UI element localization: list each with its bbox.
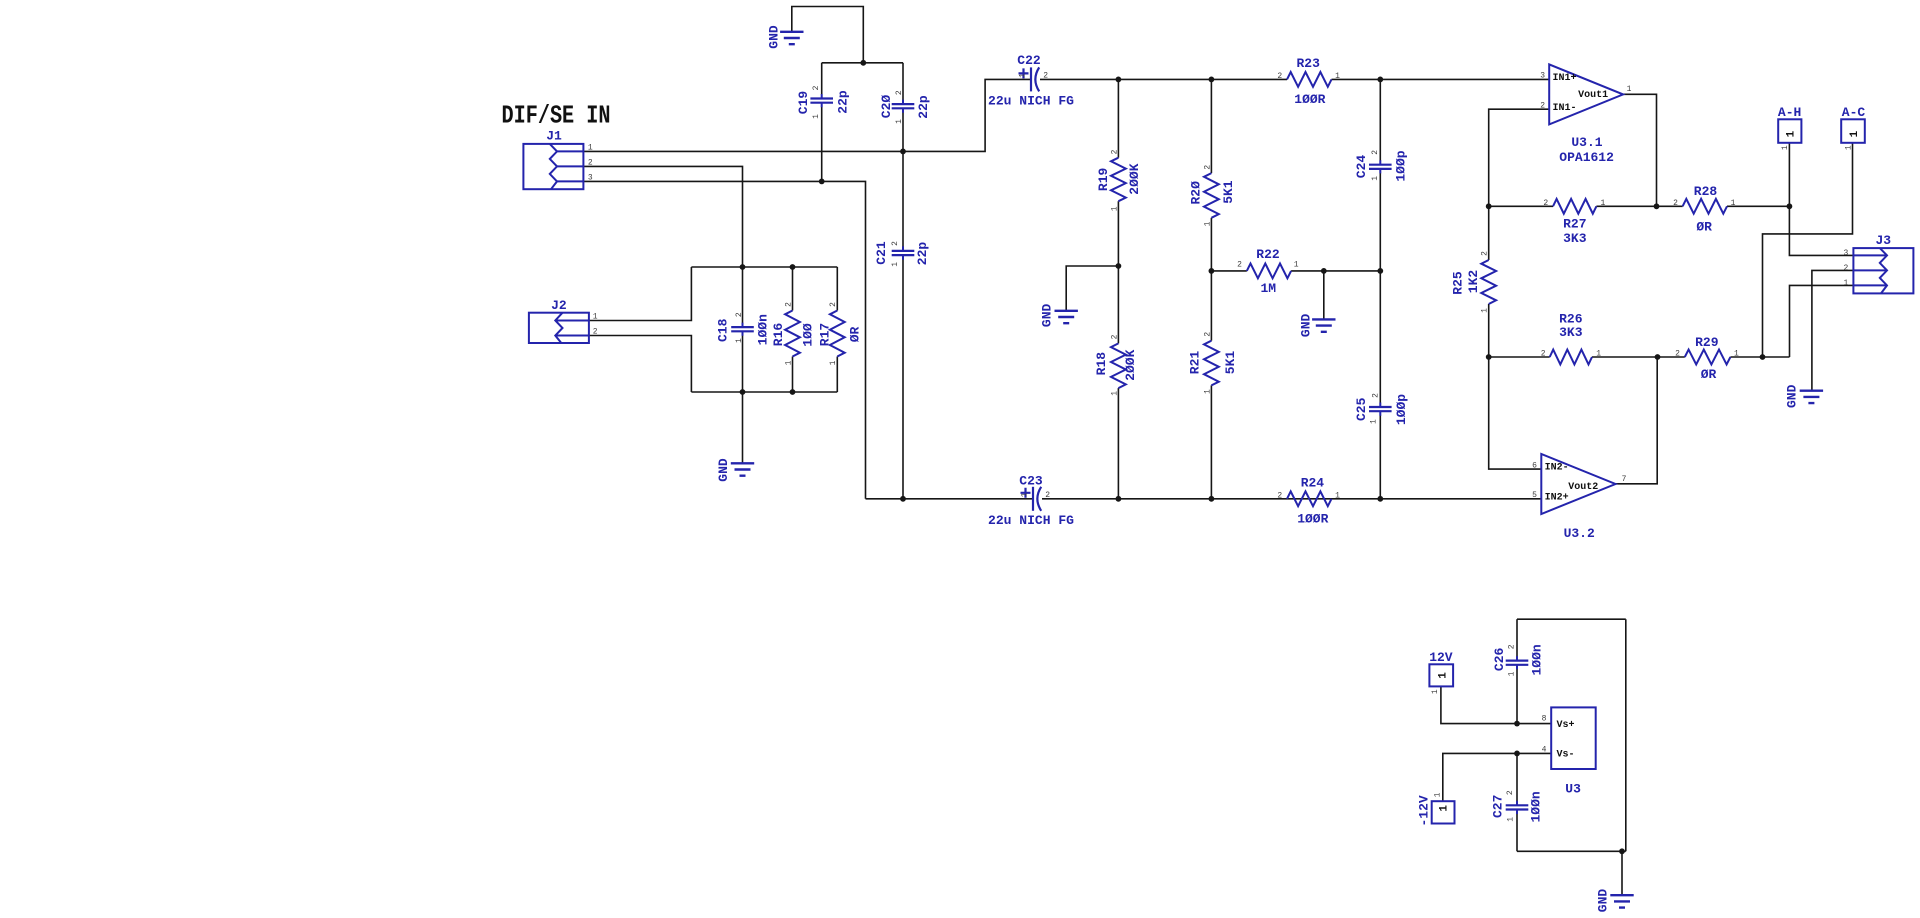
resistor R23	[1287, 72, 1332, 87]
wire R26 rail	[1489, 356, 1550, 358]
svg-text:1: 1	[1508, 671, 1517, 676]
svg-text:2: 2	[1541, 350, 1546, 359]
svg-text:2: 2	[735, 312, 744, 317]
resistor R19	[1111, 158, 1126, 202]
svg-text:1: 1	[1785, 130, 1797, 137]
svg-text:22u NICH FG: 22u NICH FG	[988, 94, 1074, 109]
svg-text:2: 2	[1110, 149, 1119, 154]
node R20-R21-R22 junction	[1209, 268, 1215, 274]
svg-text:2: 2	[1237, 260, 1242, 269]
wire C18 block bottom rail	[691, 391, 837, 393]
svg-text:12V: 12V	[1429, 650, 1453, 665]
resistor R21	[1204, 341, 1219, 386]
connector J2	[529, 313, 589, 343]
svg-text:GND: GND	[1040, 304, 1055, 328]
svg-text:2: 2	[1675, 350, 1680, 359]
node R21 bottom junction	[1209, 496, 1215, 502]
svg-text:J2: J2	[551, 298, 567, 313]
flag A-H	[1778, 119, 1801, 143]
ground GND6	[1610, 895, 1633, 907]
svg-text:Vout2: Vout2	[1568, 482, 1598, 493]
wire -12V to Vs-	[1443, 753, 1551, 801]
svg-text:A-C: A-C	[1842, 105, 1866, 120]
svg-text:1: 1	[891, 262, 900, 267]
svg-text:1: 1	[1437, 672, 1449, 679]
svg-text:1: 1	[1627, 85, 1632, 94]
wire J3 pin1 loop	[1790, 285, 1854, 357]
svg-text:2: 2	[784, 302, 793, 307]
svg-text:1ØØn: 1ØØn	[1529, 644, 1544, 675]
svg-text:1: 1	[1781, 145, 1790, 150]
wire U3.2 pin6 loop	[1489, 357, 1541, 469]
svg-text:1K2: 1K2	[1466, 270, 1481, 294]
svg-text:2: 2	[1203, 332, 1212, 337]
node power gnd junction	[1619, 848, 1625, 854]
wire A-H flag down to J3 pin3	[1789, 143, 1853, 256]
svg-text:R2Ø: R2Ø	[1188, 181, 1203, 205]
wire 12V to Vs+	[1441, 686, 1551, 723]
svg-text:5K1: 5K1	[1221, 180, 1236, 204]
svg-text:U3.1: U3.1	[1571, 135, 1602, 150]
svg-text:C19: C19	[796, 91, 811, 115]
svg-text:1: 1	[1203, 389, 1212, 394]
svg-text:Vs-: Vs-	[1557, 750, 1575, 761]
svg-text:2: 2	[1277, 491, 1282, 500]
wire top rail C19-C20	[822, 62, 903, 64]
svg-text:U3: U3	[1565, 782, 1581, 797]
wire bottom rail C23 to U3.2 pin5	[1042, 498, 1541, 500]
svg-text:GND: GND	[1596, 889, 1611, 913]
svg-text:1: 1	[1335, 72, 1340, 81]
wire GND2 stem	[742, 392, 744, 463]
capacitor C27	[1506, 805, 1529, 809]
ground GND5	[1800, 391, 1823, 403]
node R20 top junction	[1209, 77, 1215, 83]
svg-text:1: 1	[1110, 391, 1119, 396]
svg-text:5K1: 5K1	[1223, 351, 1238, 375]
wire power top rail	[1517, 618, 1626, 620]
resistor R25	[1481, 260, 1496, 304]
node R27 left junction	[1486, 203, 1492, 209]
node C20 junction on pin1 wire	[900, 149, 906, 155]
svg-text:1: 1	[1203, 221, 1212, 226]
wire C27 leads	[1516, 753, 1518, 801]
svg-text:DIF/SE IN: DIF/SE IN	[502, 102, 611, 131]
wire C26 leads	[1516, 619, 1518, 656]
node A-H junction	[1787, 203, 1793, 209]
node C24-C25 mid junction	[1377, 268, 1383, 274]
svg-text:GND: GND	[1298, 314, 1313, 338]
svg-text:Vs+: Vs+	[1557, 720, 1575, 731]
svg-text:2: 2	[1110, 334, 1119, 339]
node A-C junction on R29 net	[1760, 354, 1766, 360]
resistor R20	[1204, 173, 1219, 218]
svg-text:R16: R16	[771, 323, 786, 347]
svg-text:2: 2	[1372, 393, 1381, 398]
svg-text:GND: GND	[767, 25, 782, 49]
wire C21 leads	[902, 151, 904, 247]
node R26 left junction	[1486, 354, 1492, 360]
resistor R26	[1550, 350, 1592, 365]
svg-text:2: 2	[829, 302, 838, 307]
wire GND6 stem	[1621, 851, 1623, 895]
svg-text:1: 1	[588, 143, 593, 152]
svg-text:5: 5	[1532, 491, 1537, 500]
node R19 top junction	[1116, 77, 1122, 83]
svg-text:ØR: ØR	[847, 327, 862, 343]
svg-text:4: 4	[1542, 745, 1547, 754]
svg-text:1: 1	[829, 360, 838, 365]
ic U3 power box	[1551, 707, 1596, 769]
wire R27 rail	[1489, 205, 1553, 207]
capacitor C23 22u NICH FG	[1032, 487, 1034, 511]
svg-text:R23: R23	[1297, 56, 1321, 71]
svg-text:C22: C22	[1017, 53, 1041, 68]
svg-text:ØR: ØR	[1701, 367, 1717, 382]
wire J1 pin2 to C18 block	[583, 166, 742, 267]
wire U3.1 output down	[1623, 94, 1656, 206]
svg-text:22u NICH FG: 22u NICH FG	[988, 513, 1074, 528]
svg-text:2: 2	[1843, 264, 1848, 273]
op-amp U3.1 OPA1612	[1549, 64, 1623, 124]
capacitor C21	[892, 251, 915, 255]
node C27 top junction	[1514, 751, 1520, 757]
svg-text:2: 2	[1543, 199, 1548, 208]
svg-text:R27: R27	[1563, 217, 1586, 232]
wire R19 leads	[1117, 79, 1119, 157]
capacitor C25	[1369, 407, 1392, 411]
wire J1 pin1 net to C22	[583, 79, 1031, 151]
svg-text:ØR: ØR	[1696, 219, 1712, 234]
node top rail junction	[860, 60, 866, 66]
svg-text:1: 1	[1433, 792, 1442, 797]
svg-text:8: 8	[1542, 715, 1547, 724]
svg-text:1ØØR: 1ØØR	[1294, 92, 1325, 107]
connector J3	[1853, 248, 1913, 293]
resistor R27	[1553, 199, 1596, 214]
svg-text:1ØØp: 1ØØp	[1394, 394, 1409, 425]
svg-text:6: 6	[1532, 461, 1537, 470]
wire C24-C25 line	[1379, 79, 1381, 160]
svg-text:IN1+: IN1+	[1553, 73, 1577, 84]
svg-text:2: 2	[1673, 199, 1678, 208]
svg-text:2: 2	[1481, 251, 1490, 256]
supply 12V	[1429, 664, 1453, 686]
svg-text:1: 1	[593, 312, 598, 321]
svg-text:2: 2	[593, 327, 598, 336]
resistor R24	[1287, 491, 1332, 506]
wire R29 leads	[1658, 356, 1685, 358]
wire C19 leads	[821, 63, 823, 95]
svg-text:C25: C25	[1354, 397, 1369, 421]
node C18 top junction	[740, 264, 746, 270]
resistor R22	[1247, 264, 1291, 279]
svg-text:R22: R22	[1256, 247, 1280, 262]
wire C18 leads	[742, 267, 744, 323]
svg-text:J3: J3	[1876, 233, 1892, 248]
svg-text:1ØØ: 1ØØ	[801, 323, 816, 347]
capacitor C18	[731, 327, 754, 331]
svg-text:1: 1	[1431, 689, 1440, 694]
svg-text:1: 1	[1506, 817, 1515, 822]
svg-text:R25: R25	[1451, 271, 1466, 295]
svg-text:C21: C21	[874, 241, 889, 265]
op-amp U3.2	[1541, 454, 1615, 514]
wire GND1 to top rail	[792, 7, 864, 63]
svg-text:1: 1	[1600, 199, 1605, 208]
svg-text:A-H: A-H	[1778, 105, 1801, 120]
svg-text:2: 2	[1043, 72, 1048, 81]
svg-text:2: 2	[1540, 101, 1545, 110]
svg-text:1: 1	[812, 114, 821, 119]
svg-text:3: 3	[1843, 249, 1848, 258]
capacitor C19	[810, 99, 833, 103]
svg-text:2: 2	[1045, 491, 1050, 500]
svg-text:IN1-: IN1-	[1553, 103, 1577, 114]
wire bottom rail to C23	[866, 498, 1034, 500]
wire R18 leads	[1117, 266, 1119, 343]
capacitor C24	[1369, 165, 1392, 169]
node R18 bottom junction	[1116, 496, 1122, 502]
node R19-R18 junction	[1116, 263, 1122, 269]
wire GND4 stem	[1323, 271, 1325, 319]
svg-text:1: 1	[1370, 419, 1379, 424]
svg-text:-12V: -12V	[1417, 795, 1432, 826]
svg-text:GND: GND	[1785, 384, 1800, 408]
svg-text:R29: R29	[1695, 335, 1719, 350]
ground GND4	[1312, 319, 1335, 331]
svg-text:2: 2	[1277, 72, 1282, 81]
svg-text:3K3: 3K3	[1559, 325, 1583, 340]
svg-text:Vout1: Vout1	[1578, 90, 1608, 101]
svg-text:1: 1	[895, 119, 904, 124]
svg-text:3: 3	[1540, 71, 1545, 80]
wire GND3 stub	[1066, 266, 1118, 311]
svg-text:2: 2	[812, 85, 821, 90]
svg-text:C18: C18	[716, 318, 731, 342]
svg-text:3K3: 3K3	[1563, 231, 1587, 246]
capacitor C20	[892, 104, 915, 108]
svg-text:1ØØn: 1ØØn	[1529, 791, 1544, 822]
svg-text:2: 2	[1506, 790, 1515, 795]
wire C20 leads	[902, 63, 904, 100]
node C26 bottom junction	[1514, 721, 1520, 727]
svg-text:R28: R28	[1694, 184, 1718, 199]
svg-text:2: 2	[895, 90, 904, 95]
wire R17 leads	[836, 267, 838, 311]
svg-text:1: 1	[1731, 199, 1736, 208]
flag A-C	[1841, 119, 1865, 143]
svg-text:1: 1	[1596, 350, 1601, 359]
connector J1	[523, 144, 583, 189]
ground GND2	[731, 463, 754, 475]
svg-text:J1: J1	[546, 129, 562, 144]
svg-text:2: 2	[588, 158, 593, 167]
wire U3.2 output up	[1616, 357, 1658, 484]
wire R22 rail	[1211, 270, 1246, 272]
wire power bottom rail	[1517, 850, 1626, 852]
svg-text:3: 3	[588, 173, 593, 182]
svg-text:R18: R18	[1094, 352, 1109, 376]
node C24 top junction	[1377, 77, 1383, 83]
supply -12V	[1432, 801, 1455, 823]
svg-text:1: 1	[1843, 279, 1848, 288]
svg-text:1: 1	[1018, 73, 1027, 78]
wire U3.1 pin2 loop	[1489, 109, 1549, 206]
svg-text:1ØØn: 1ØØn	[755, 314, 770, 345]
svg-text:2: 2	[1371, 150, 1380, 155]
resistor R29	[1685, 350, 1731, 365]
ground GND3	[1055, 311, 1078, 323]
capacitor C22 22u NICH FG	[1030, 67, 1032, 91]
wire R16 leads	[792, 267, 794, 311]
capacitor C26	[1506, 661, 1529, 665]
svg-text:GND: GND	[716, 458, 731, 482]
svg-text:OPA1612: OPA1612	[1559, 150, 1614, 165]
resistor R18	[1111, 343, 1126, 388]
svg-text:1ØØp: 1ØØp	[1394, 150, 1409, 181]
svg-text:2: 2	[1508, 644, 1517, 649]
svg-text:1: 1	[1294, 260, 1299, 269]
node U3.2 output junction	[1655, 354, 1661, 360]
wire A-C flag loop	[1763, 143, 1853, 357]
wire R20 leads	[1210, 79, 1212, 173]
svg-text:7: 7	[1622, 475, 1627, 484]
svg-text:C26: C26	[1492, 648, 1507, 672]
wire input rail to U3.1 pin3	[1118, 78, 1287, 80]
wire J3 pin2 to GND5	[1812, 270, 1854, 390]
wire J1 pin3 to bottom rail	[583, 181, 865, 498]
svg-text:1: 1	[1371, 176, 1380, 181]
svg-text:R19: R19	[1096, 168, 1111, 192]
svg-text:IN2-: IN2-	[1545, 463, 1569, 474]
resistor R28	[1683, 199, 1727, 214]
node R16 top junction	[790, 264, 796, 270]
resistor R16	[785, 311, 800, 357]
wire C18 block top rail	[691, 266, 837, 268]
node C21 bottom junction	[900, 496, 906, 502]
wire C22 right lead	[1040, 78, 1118, 80]
node GND4 tap junction	[1321, 268, 1327, 274]
wire J2 pin1 up	[589, 267, 692, 321]
svg-text:1: 1	[784, 360, 793, 365]
svg-text:1: 1	[1844, 145, 1853, 150]
wire power right vertical	[1625, 619, 1627, 851]
svg-text:1: 1	[1439, 805, 1451, 812]
wire R21 leads	[1210, 271, 1212, 341]
wire R28 leads	[1657, 205, 1683, 207]
svg-text:1ØØR: 1ØØR	[1297, 512, 1328, 527]
svg-text:2: 2	[891, 241, 900, 246]
svg-text:2: 2	[1203, 165, 1212, 170]
node C18 bottom junction	[740, 389, 746, 395]
svg-text:22p: 22p	[915, 242, 930, 266]
wire J2 pin2 down	[589, 336, 692, 393]
svg-text:22p: 22p	[836, 90, 851, 114]
svg-text:R21: R21	[1188, 351, 1203, 375]
svg-text:IN2+: IN2+	[1545, 492, 1569, 503]
node R16 bottom junction	[790, 389, 796, 395]
svg-text:1: 1	[1734, 350, 1739, 359]
svg-text:R17: R17	[817, 323, 832, 346]
svg-text:22p: 22p	[916, 95, 931, 119]
svg-text:1M: 1M	[1261, 281, 1277, 296]
svg-text:1: 1	[1481, 308, 1490, 313]
svg-text:C24: C24	[1354, 155, 1369, 179]
node C19 junction on pin3 wire	[819, 179, 825, 185]
svg-text:1: 1	[1020, 492, 1029, 497]
svg-text:2ØØK: 2ØØK	[1127, 163, 1142, 194]
node C25 bottom junction	[1377, 496, 1383, 502]
svg-text:C23: C23	[1019, 474, 1043, 489]
svg-text:R24: R24	[1301, 476, 1325, 491]
svg-text:U3.2: U3.2	[1564, 526, 1595, 541]
resistor R17	[830, 311, 845, 357]
wire R25 leads	[1488, 206, 1490, 260]
svg-text:1: 1	[1110, 206, 1119, 211]
svg-text:1: 1	[735, 338, 744, 343]
svg-text:1: 1	[1335, 491, 1340, 500]
node U3.1 output junction	[1654, 203, 1660, 209]
svg-text:C27: C27	[1491, 795, 1506, 818]
ground GND1	[780, 32, 803, 44]
svg-text:C2Ø: C2Ø	[879, 95, 894, 119]
svg-text:2ØØK: 2ØØK	[1123, 349, 1138, 380]
svg-text:1: 1	[1849, 130, 1861, 137]
